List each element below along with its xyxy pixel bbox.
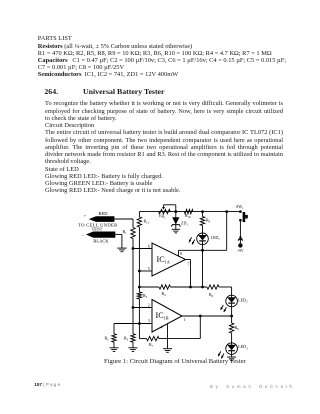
zener diode ZD1 — [175, 212, 177, 218]
resistor R1 — [131, 228, 135, 239]
svg-text:ZD1: ZD1 — [181, 221, 188, 227]
svg-text:4: 4 — [161, 325, 163, 329]
svg-text:5: 5 — [148, 267, 150, 271]
svg-text:BLACK: BLACK — [93, 239, 109, 244]
wire left bus: red probe lead down to R1/pin6/pin2/R3 — [114, 218, 133, 220]
parts list semiconductors — [38, 71, 178, 78]
resistor R6 — [207, 285, 219, 289]
wire IC1B pin2 lead — [133, 307, 152, 309]
svg-text:+: + — [84, 214, 86, 218]
wire IC1A pin8 riser and horizontal to LED1 column and right riser — [178, 250, 180, 256]
svg-text:R2: R2 — [105, 336, 110, 342]
LED3 — [226, 343, 238, 355]
ground below LED3 — [227, 356, 236, 358]
resistor R4 — [159, 285, 171, 289]
wire LED2 column: mid rail corner down, LED2 to output node, R8, LED3 to ground — [231, 287, 233, 295]
parts list heading — [38, 35, 72, 42]
junction node dots — [174, 210, 177, 213]
figure caption — [104, 358, 246, 366]
parts list resistors — [38, 43, 192, 50]
ground below ZD1 — [172, 228, 181, 230]
op-amp IC1A — [152, 243, 186, 276]
+9V source arrow — [238, 236, 243, 240]
wire feedback: output down to R7 — [199, 316, 201, 339]
wire switch to +9V arrow — [239, 220, 241, 243]
svg-text:LED1: LED1 — [211, 235, 221, 241]
wire IC1A output pin7 down to mid rail — [186, 259, 191, 261]
svg-text:6: 6 — [148, 244, 150, 248]
svg-text:LED2: LED2 — [238, 298, 248, 304]
svg-text:R8: R8 — [235, 325, 240, 331]
svg-text:-: - — [82, 233, 84, 238]
svg-text:1: 1 — [184, 318, 186, 322]
probe RED — [89, 216, 115, 222]
wire IC1B output pin1 to LED2 node — [182, 315, 232, 317]
resistor R8 — [229, 323, 233, 333]
wire right bus: rail corner down through R11 to pin5, rail287, R5, pin3, R7 — [138, 212, 140, 217]
svg-text:R5: R5 — [143, 293, 148, 299]
wire mid rail y287 — [139, 286, 159, 288]
wire black probe to ground — [115, 233, 122, 235]
svg-text:+9V: +9V — [237, 249, 244, 253]
svg-text:LED3: LED3 — [238, 344, 248, 350]
op-amp IC1B — [152, 300, 182, 333]
svg-text:VR1: VR1 — [159, 214, 167, 220]
svg-text:RED: RED — [99, 211, 109, 216]
svg-text:R3: R3 — [124, 336, 129, 342]
svg-text:SW1: SW1 — [236, 204, 244, 210]
svg-text:8: 8 — [180, 252, 182, 256]
svg-text:TEST: TEST — [92, 227, 103, 232]
ground below R2 — [110, 347, 119, 349]
switch SW1 — [239, 210, 242, 213]
wire IC1B pin4 down to ground — [167, 324, 169, 349]
resistor R3 — [131, 334, 135, 342]
body paragraph — [45, 100, 283, 107]
wire top +9V rail — [139, 211, 240, 213]
wire IC1A pin5 lead — [139, 270, 152, 272]
svg-text:R4: R4 — [162, 291, 167, 297]
svg-text:R1: R1 — [123, 229, 128, 235]
LED2 — [226, 295, 238, 307]
resistor R11 — [137, 217, 141, 227]
resistor R10 (on top rail) — [184, 209, 193, 213]
parts list capacitors — [38, 57, 286, 64]
svg-text:IC1A: IC1A — [157, 255, 170, 265]
resistor VR1 (preset, on top rail) — [159, 209, 171, 213]
probe BLACK — [86, 232, 115, 238]
ground below R3 — [129, 347, 138, 349]
wire IC1A pin6 lead — [133, 248, 152, 250]
svg-text:R9: R9 — [206, 218, 211, 224]
wire LED1 column: rail to R9, LED1 to mid rail — [202, 212, 204, 217]
resistor R5 — [137, 292, 141, 299]
svg-text:3: 3 — [148, 319, 150, 323]
svg-text:R7: R7 — [149, 342, 154, 348]
resistor R9 — [200, 217, 204, 226]
LED1 — [197, 233, 209, 245]
svg-text:2: 2 — [148, 303, 150, 307]
footer page number — [34, 382, 60, 387]
section heading 264 — [44, 88, 164, 97]
resistor R7 — [147, 336, 160, 340]
ground below IC1B pin4 — [163, 348, 172, 350]
ground below black probe — [117, 247, 127, 249]
svg-text:IC1B: IC1B — [156, 311, 169, 321]
resistor R2 — [112, 334, 116, 342]
svg-text:7: 7 — [188, 262, 190, 266]
footer author — [210, 384, 295, 389]
wire IC1B pin3 lead to R2 — [114, 323, 152, 325]
svg-text:R6: R6 — [209, 292, 214, 298]
svg-text:R11: R11 — [144, 219, 150, 225]
